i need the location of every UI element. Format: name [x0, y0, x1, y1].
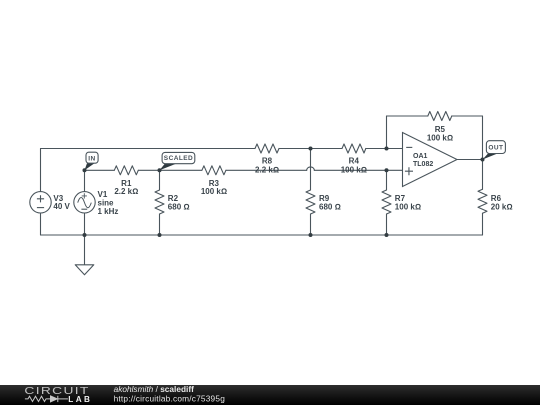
wire R6 to rail — [482, 213, 484, 235]
svg-text:20 kΩ: 20 kΩ — [491, 202, 513, 211]
wire bottom rail — [41, 234, 483, 236]
svg-text:680 Ω: 680 Ω — [168, 202, 190, 211]
svg-text:http://circuitlab.com/c75395g: http://circuitlab.com/c75395g — [114, 393, 226, 403]
resistor R7 — [382, 190, 391, 214]
label R7 value — [395, 194, 421, 212]
wire node IN to R1 — [85, 169, 115, 171]
wire R8 to R4 — [279, 148, 342, 150]
label R3 value — [201, 179, 227, 196]
junction rail R2 — [158, 233, 162, 237]
label R2 value — [168, 194, 190, 212]
svg-text:TL082: TL082 — [413, 161, 433, 168]
resistor R3 — [202, 166, 226, 175]
svg-text:2.2 kΩ: 2.2 kΩ — [255, 165, 279, 174]
wire feedback left vertical — [386, 116, 388, 149]
label R9 value — [319, 194, 341, 212]
junction R7 plus input — [385, 168, 389, 172]
junction node IN — [83, 168, 87, 172]
wire hop to op-amp plus input — [314, 169, 402, 171]
wire feedback top right segment — [452, 115, 483, 117]
junction feedback minus input — [385, 147, 389, 151]
wire R9 column top — [310, 149, 312, 191]
label OA1 TL082 — [413, 153, 433, 168]
wire V3 top vertical — [40, 149, 42, 192]
wire OUT node to R6 — [482, 160, 484, 190]
resistor R8 — [255, 144, 279, 153]
svg-text:100 kΩ: 100 kΩ — [341, 165, 367, 174]
wire V3 bottom vertical — [40, 213, 42, 235]
wire top row left segment (V3 top to R8) — [41, 148, 256, 150]
wire R7 to rail — [386, 214, 388, 235]
resistor R1 — [114, 166, 138, 175]
ground — [75, 265, 94, 275]
label R5 value — [427, 125, 453, 143]
wire V1 bottom to rail — [84, 213, 86, 235]
svg-text:100 kΩ: 100 kΩ — [395, 202, 421, 211]
svg-text:2.2 kΩ: 2.2 kΩ — [114, 187, 138, 196]
label R1 value — [114, 179, 138, 196]
resistor R4 — [342, 144, 366, 153]
svg-text:OUT: OUT — [488, 145, 503, 152]
wire IN node to V1 top — [84, 170, 86, 191]
junction node SCALED — [158, 168, 162, 172]
label R8 value — [255, 157, 279, 175]
wire R3 to hop — [226, 169, 307, 171]
junction R8-R9 top wire — [309, 147, 313, 151]
svg-text:40 V: 40 V — [53, 202, 70, 211]
label R4 value — [341, 157, 367, 175]
junction rail V1 — [83, 233, 87, 237]
junction rail R9 — [309, 233, 313, 237]
op-amp OA1 — [403, 133, 458, 187]
svg-text:OA1: OA1 — [413, 153, 428, 160]
label R6 value — [491, 194, 513, 212]
svg-text:100 kΩ: 100 kΩ — [201, 187, 227, 196]
node label SCALED — [160, 152, 195, 170]
voltage source V3 — [30, 192, 51, 213]
resistor R9 — [306, 190, 315, 214]
resistor R5 — [428, 112, 452, 121]
wire R2 to rail — [159, 214, 161, 235]
resistor R2 — [155, 190, 164, 214]
wire SCALED to R2 — [159, 170, 161, 190]
label V1 value — [98, 190, 119, 216]
svg-text:100 kΩ: 100 kΩ — [427, 134, 453, 143]
wire ground stem — [84, 235, 86, 265]
label V3 value — [53, 194, 70, 211]
wire feedback right vertical to output — [482, 116, 484, 160]
wire SCALED to R3 — [160, 169, 202, 171]
wire hop over R9 column — [307, 167, 315, 170]
wire R7 column top — [386, 170, 388, 190]
logo resistor squiggle and diode — [25, 396, 68, 402]
junction rail R7 — [385, 233, 389, 237]
junction node OUT — [481, 158, 485, 162]
svg-text:1 kHz: 1 kHz — [98, 207, 119, 216]
voltage source V1 sine — [74, 192, 95, 213]
node label IN — [85, 152, 99, 170]
wire R1 to node SCALED — [138, 169, 159, 171]
svg-text:680 Ω: 680 Ω — [319, 202, 341, 211]
svg-text:LAB: LAB — [68, 395, 92, 404]
svg-text:IN: IN — [88, 155, 95, 162]
resistor R6 — [478, 189, 487, 213]
svg-text:SCALED: SCALED — [164, 155, 193, 162]
wire op-amp output to OUT node — [457, 159, 483, 161]
wire feedback top left segment — [387, 115, 428, 117]
wire R4 to op-amp minus input — [366, 148, 403, 150]
node label OUT — [483, 141, 506, 160]
wire R9 to rail — [310, 214, 312, 235]
